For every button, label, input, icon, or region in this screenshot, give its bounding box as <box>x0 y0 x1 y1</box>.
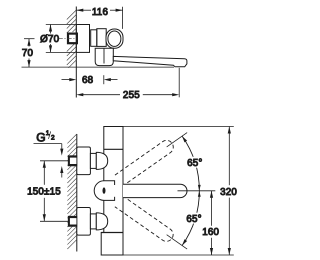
arc end arrowhead lower <box>182 239 187 245</box>
svg-text:320: 320 <box>220 187 237 198</box>
dimension 116 <box>76 7 122 29</box>
spout (front view, solid) <box>123 184 187 197</box>
wall line (side view) <box>75 7 77 98</box>
top union dome (front view) <box>96 152 107 169</box>
dimension 160 <box>211 191 213 255</box>
label 65 deg upper <box>186 157 203 168</box>
dimension 255 <box>81 68 179 98</box>
svg-text:160: 160 <box>202 227 219 238</box>
G 1/2 leader <box>34 144 62 178</box>
svg-text:116: 116 <box>92 7 109 18</box>
swing arc <box>182 136 199 245</box>
spout base housing divider <box>103 48 105 63</box>
inlet stub centerline (side view) <box>58 37 77 39</box>
bottom union pipe (front view) <box>90 214 96 229</box>
lower dashed spout position <box>115 196 176 244</box>
body end cap outer (side view) <box>106 29 123 48</box>
collar ring (side view) <box>91 30 97 47</box>
top union pipe (front view) <box>90 153 96 168</box>
body end cap inner (side view) <box>108 31 121 46</box>
svg-text:Ø70: Ø70 <box>40 34 59 45</box>
upper spout axis extension line <box>167 133 187 147</box>
body divider line <box>104 148 123 150</box>
upper dashed spout position <box>115 138 176 186</box>
bottom inlet stub through wall (front view) <box>68 216 77 226</box>
svg-text:2: 2 <box>51 135 55 142</box>
top inlet stub through wall (front view) <box>68 156 77 166</box>
spout centerline <box>178 190 216 192</box>
body bottom block <box>101 233 123 256</box>
wall line (front view) <box>76 134 78 252</box>
svg-text:65°: 65° <box>187 158 202 169</box>
svg-text:68: 68 <box>82 75 94 86</box>
inlet stub behind wall (side view) <box>68 34 77 44</box>
dimension 68 <box>62 75 118 84</box>
svg-text:65°: 65° <box>186 214 201 225</box>
spout base housing (side view) <box>95 48 113 65</box>
arc center arrowheads at spout axis <box>198 185 201 191</box>
top escutcheon (front view) <box>77 147 91 175</box>
spout root white fill over knob edge <box>114 185 123 197</box>
wall hatching (side view) <box>67 10 77 68</box>
wall hatching (front view) <box>67 134 76 249</box>
label 65 deg lower <box>186 213 203 224</box>
spout tube (side view) <box>113 56 187 66</box>
svg-text:150±15: 150±15 <box>27 187 61 198</box>
arc end arrowhead upper <box>182 136 187 142</box>
sensor window <box>103 187 106 193</box>
bottom union dome (front view) <box>96 213 107 230</box>
dimension 320 <box>123 127 234 256</box>
dimension 70 <box>22 39 175 67</box>
body cylinder (side view) <box>97 29 106 47</box>
svg-text:G: G <box>36 130 46 144</box>
body (front view) <box>104 127 123 233</box>
lower spout axis extension line <box>167 235 187 249</box>
escutcheon (side view) <box>76 25 89 53</box>
bottom escutcheon (front view) <box>77 208 91 236</box>
svg-text:255: 255 <box>123 90 140 101</box>
mixer knob (front view) <box>94 181 114 201</box>
svg-text:70: 70 <box>22 48 34 59</box>
dimension 150 +/- 15 <box>40 161 68 222</box>
dimension &#216;70 <box>46 25 76 53</box>
